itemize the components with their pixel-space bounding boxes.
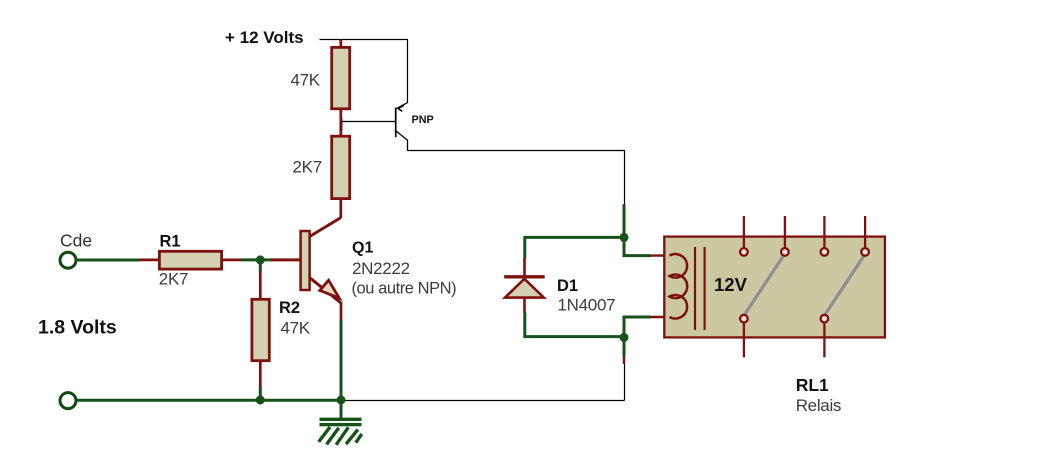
svg-text:1.8 Volts: 1.8 Volts bbox=[38, 317, 117, 339]
transistor PNP bbox=[396, 102, 434, 150]
svg-text:D1: D1 bbox=[557, 277, 578, 295]
wire R2 to bottom rail bbox=[259, 387, 262, 400]
wire R1 to base node bbox=[241, 258, 271, 261]
ground bbox=[319, 403, 362, 445]
wire green above upper dot bbox=[623, 204, 626, 237]
svg-text:+ 12 Volts: + 12 Volts bbox=[225, 28, 304, 47]
wire to coil bottom bbox=[624, 317, 651, 337]
svg-text:Q1: Q1 bbox=[352, 240, 373, 257]
junction base node bbox=[256, 255, 265, 264]
svg-text:Relais: Relais bbox=[796, 396, 841, 415]
svg-text:R1: R1 bbox=[160, 233, 181, 251]
wire bottom black return bbox=[346, 400, 625, 402]
svg-text:12V: 12V bbox=[714, 274, 748, 295]
wire bottom rail bbox=[77, 399, 342, 402]
resistor R2 bbox=[252, 272, 311, 389]
svg-text:(ou autre NPN): (ou autre NPN) bbox=[352, 280, 457, 298]
junction R2 bottom bbox=[256, 396, 265, 405]
svg-text:Cde: Cde bbox=[60, 231, 92, 251]
wire emitter down bbox=[340, 320, 343, 401]
wire node to R2 bbox=[259, 260, 262, 273]
svg-text:RL1: RL1 bbox=[796, 375, 829, 395]
svg-text:47K: 47K bbox=[281, 319, 311, 338]
svg-text:2K7: 2K7 bbox=[159, 270, 188, 289]
resistor R1 bbox=[139, 233, 242, 289]
svg-text:1N4007: 1N4007 bbox=[558, 296, 616, 315]
resistor 2K7 (upper) bbox=[293, 136, 350, 218]
wire green below lower dot bbox=[623, 337, 626, 356]
relay RL1 bbox=[664, 216, 885, 415]
terminal Cde bbox=[60, 231, 92, 269]
resistor 47K bbox=[291, 39, 350, 136]
svg-text:PNP: PNP bbox=[412, 114, 434, 126]
diode D1 bbox=[504, 237, 624, 336]
wire Cde to R1 bbox=[77, 259, 140, 262]
svg-text:2N2222: 2N2222 bbox=[352, 259, 410, 278]
svg-text:R2: R2 bbox=[279, 299, 300, 317]
wire collector to relay bus bbox=[408, 151, 625, 205]
svg-text:47K: 47K bbox=[291, 71, 321, 90]
wire black riser right bbox=[624, 364, 626, 401]
pin stub maroon bbox=[623, 356, 626, 364]
coil pin top bbox=[651, 254, 672, 256]
wire emitter riser bbox=[407, 40, 409, 103]
transistor Q1 bbox=[270, 218, 456, 321]
terminal 1.8 Volts bbox=[38, 317, 117, 409]
junction ground node bbox=[337, 396, 346, 405]
wire top rail bbox=[320, 39, 409, 41]
wire PNP base bbox=[340, 118, 396, 131]
coil pin bottom bbox=[651, 316, 673, 318]
wire to coil top bbox=[624, 237, 651, 255]
svg-text:2K7: 2K7 bbox=[293, 158, 322, 177]
junction relay top bbox=[620, 233, 629, 242]
junction relay bottom bbox=[620, 333, 629, 342]
